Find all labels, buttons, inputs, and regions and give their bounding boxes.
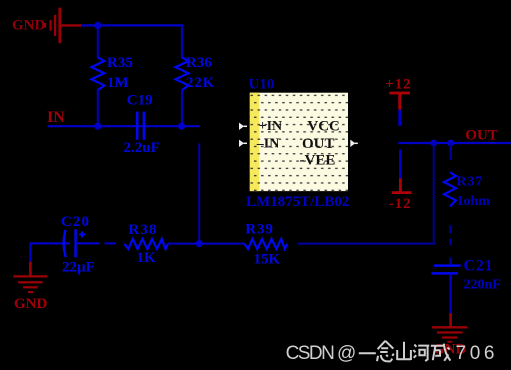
- node IN-R36 junction: [178, 123, 185, 130]
- capacitor C20: [30, 214, 115, 275]
- power -12: [389, 150, 412, 213]
- node out junction B: [447, 140, 454, 147]
- svg-text:+12: +12: [385, 77, 411, 93]
- wire R38 to node: [168, 243, 196, 245]
- resistor R38: [125, 222, 169, 266]
- svg-text:C21: C21: [464, 258, 494, 275]
- op-amp U10: [239, 77, 358, 210]
- svg-text:U10: U10: [249, 77, 275, 93]
- resistor R36: [176, 55, 216, 126]
- node feedback junction: [196, 240, 203, 247]
- svg-text:–IN: –IN: [256, 137, 280, 152]
- capacitor C19: [124, 93, 160, 156]
- wire node to R39: [202, 243, 245, 245]
- svg-text:OUT: OUT: [465, 127, 498, 143]
- node IN-R35 junction: [94, 123, 101, 130]
- svg-text:GND: GND: [14, 296, 48, 312]
- svg-text:-12: -12: [389, 196, 412, 212]
- ground GND1 top-left: [12, 8, 81, 44]
- watermark CSDN: [286, 341, 495, 364]
- svg-text:IN: IN: [47, 109, 65, 126]
- svg-text:R36: R36: [186, 55, 212, 71]
- node top rail junction: [94, 22, 101, 29]
- wire feedback vertical: [433, 143, 435, 244]
- resistor R37: [444, 143, 490, 209]
- svg-text:-VEE: -VEE: [300, 153, 336, 169]
- svg-text:1K: 1K: [137, 250, 157, 266]
- svg-text:1M: 1M: [107, 75, 129, 91]
- capacitor C21: [432, 258, 501, 293]
- svg-text:+IN: +IN: [259, 119, 283, 134]
- svg-text:C20: C20: [61, 214, 90, 230]
- power +12: [385, 77, 411, 126]
- svg-text:2.2uF: 2.2uF: [124, 140, 160, 156]
- svg-text:22K: 22K: [186, 75, 215, 91]
- ground GND3 left: [13, 242, 47, 312]
- wire IN line: [48, 125, 200, 127]
- svg-text:OUT: OUT: [302, 136, 335, 152]
- wire -IN drop: [198, 144, 200, 244]
- svg-text:R35: R35: [107, 55, 133, 71]
- svg-text:R38: R38: [129, 222, 158, 238]
- svg-text:LM1875T/LB02: LM1875T/LB02: [246, 194, 349, 210]
- wire OUT line: [398, 142, 511, 144]
- resistor R35: [91, 55, 132, 126]
- svg-text:706: 706: [456, 343, 495, 364]
- svg-text:22µF: 22µF: [62, 260, 95, 276]
- node out junction A: [430, 140, 437, 147]
- wire R37 to C21 dashes: [449, 225, 451, 265]
- svg-text:1ohm: 1ohm: [457, 194, 491, 209]
- resistor R39: [245, 221, 288, 267]
- wire R39 to corner: [298, 243, 435, 245]
- svg-text:220nF: 220nF: [464, 278, 501, 293]
- wire top rail: [81, 24, 183, 57]
- svg-text:VCC: VCC: [307, 118, 340, 134]
- svg-text:C19: C19: [127, 93, 153, 109]
- svg-text:CSDN @: CSDN @: [286, 343, 357, 364]
- ground GND2 right: [432, 273, 468, 357]
- svg-text:R39: R39: [245, 221, 274, 237]
- svg-text:GND: GND: [12, 18, 46, 34]
- svg-text:15K: 15K: [254, 252, 281, 268]
- svg-text:R37: R37: [457, 175, 484, 190]
